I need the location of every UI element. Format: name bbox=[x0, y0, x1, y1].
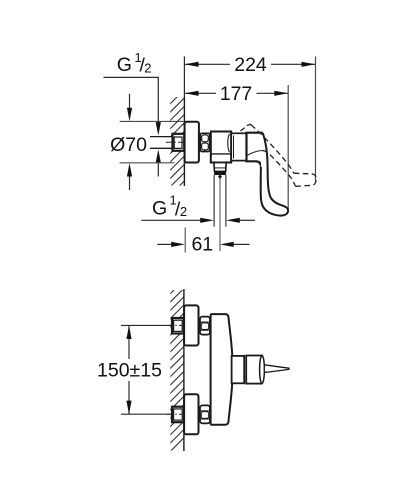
label G 1/2 (outlet thread, bottom of top view) bbox=[152, 193, 187, 221]
contour of raised lever over hub (top view) bbox=[247, 151, 263, 156]
dimension 177 bbox=[185, 83, 288, 105]
valve body (top view) bbox=[211, 132, 231, 163]
upper wall union nut behind wall (bottom view) bbox=[172, 318, 184, 334]
seal ring (black band) on outlet bbox=[214, 171, 226, 175]
lower escutcheon (bottom view) bbox=[184, 394, 198, 434]
dimension 61 bbox=[157, 233, 249, 255]
wall (bottom view) with hatching bbox=[162, 272, 192, 460]
svg-text:177: 177 bbox=[220, 83, 253, 105]
solid lever handle (closed position, top view) bbox=[261, 133, 288, 216]
lever hub (top view) bbox=[247, 133, 263, 167]
dimension 150±15 bbox=[97, 326, 162, 415]
lever pointing at viewer (bottom view) bbox=[264, 365, 289, 373]
extension line right of 177 bbox=[287, 85, 289, 213]
supply pipe behind wall (top view) bbox=[150, 136, 173, 149]
lever hub section 1 (bottom view) bbox=[232, 356, 245, 383]
svg-text:Ø70: Ø70 bbox=[110, 134, 147, 156]
dimension Ø70 extension lines bbox=[120, 121, 184, 162]
upper union nut (bottom view) bbox=[200, 317, 210, 335]
cartridge dome section (top view) bbox=[231, 133, 246, 160]
wall (top view) with hatching bbox=[162, 82, 192, 245]
dimension Ø70 arrows bbox=[127, 94, 132, 190]
outlet centerline bbox=[218, 174, 222, 252]
svg-text:61: 61 bbox=[191, 233, 213, 255]
lower union nut (bottom view) bbox=[200, 405, 210, 423]
svg-text:G: G bbox=[152, 198, 167, 220]
centerline upper inlet bbox=[167, 324, 185, 326]
upper escutcheon (bottom view) bbox=[184, 305, 198, 345]
svg-text:150±15: 150±15 bbox=[97, 360, 162, 382]
extension line upper inlet bbox=[121, 324, 171, 326]
leader/dimension for outlet G 1/2 bbox=[141, 218, 255, 223]
extension line lower inlet bbox=[121, 413, 171, 415]
label Ø70 bbox=[110, 134, 147, 156]
outlet connector under body (top view) bbox=[214, 163, 226, 172]
escutcheon flange Ø70 (top view) bbox=[185, 122, 199, 163]
leader for G 1/2 top bbox=[104, 77, 161, 176]
label G 1/2 (wall union thread, top) bbox=[117, 50, 152, 77]
centerline lower inlet bbox=[167, 413, 185, 415]
shower outlet pipe G1/2 (top view) bbox=[214, 175, 226, 227]
lower wall union nut behind wall (bottom view) bbox=[172, 407, 184, 423]
dashed lever handle (open position, top view) bbox=[241, 124, 317, 186]
extension line right of 224 bbox=[315, 57, 317, 184]
lever hub cap with dome end (bottom view) bbox=[246, 356, 264, 384]
wall union nut behind wall (top view) bbox=[173, 134, 185, 151]
svg-text:224: 224 bbox=[234, 54, 267, 76]
extension line wall face for 61 bbox=[184, 228, 186, 253]
centerline of wall union (top view) bbox=[166, 141, 185, 143]
svg-text:2: 2 bbox=[180, 204, 187, 219]
dimension 224 bbox=[185, 54, 315, 76]
svg-text:2: 2 bbox=[144, 60, 151, 75]
svg-text:G: G bbox=[117, 54, 132, 76]
extension line wall face (for 224/177 dims) bbox=[183, 57, 185, 98]
union nut (top view) bbox=[200, 133, 209, 151]
mixer body (bottom view) bbox=[211, 314, 233, 425]
